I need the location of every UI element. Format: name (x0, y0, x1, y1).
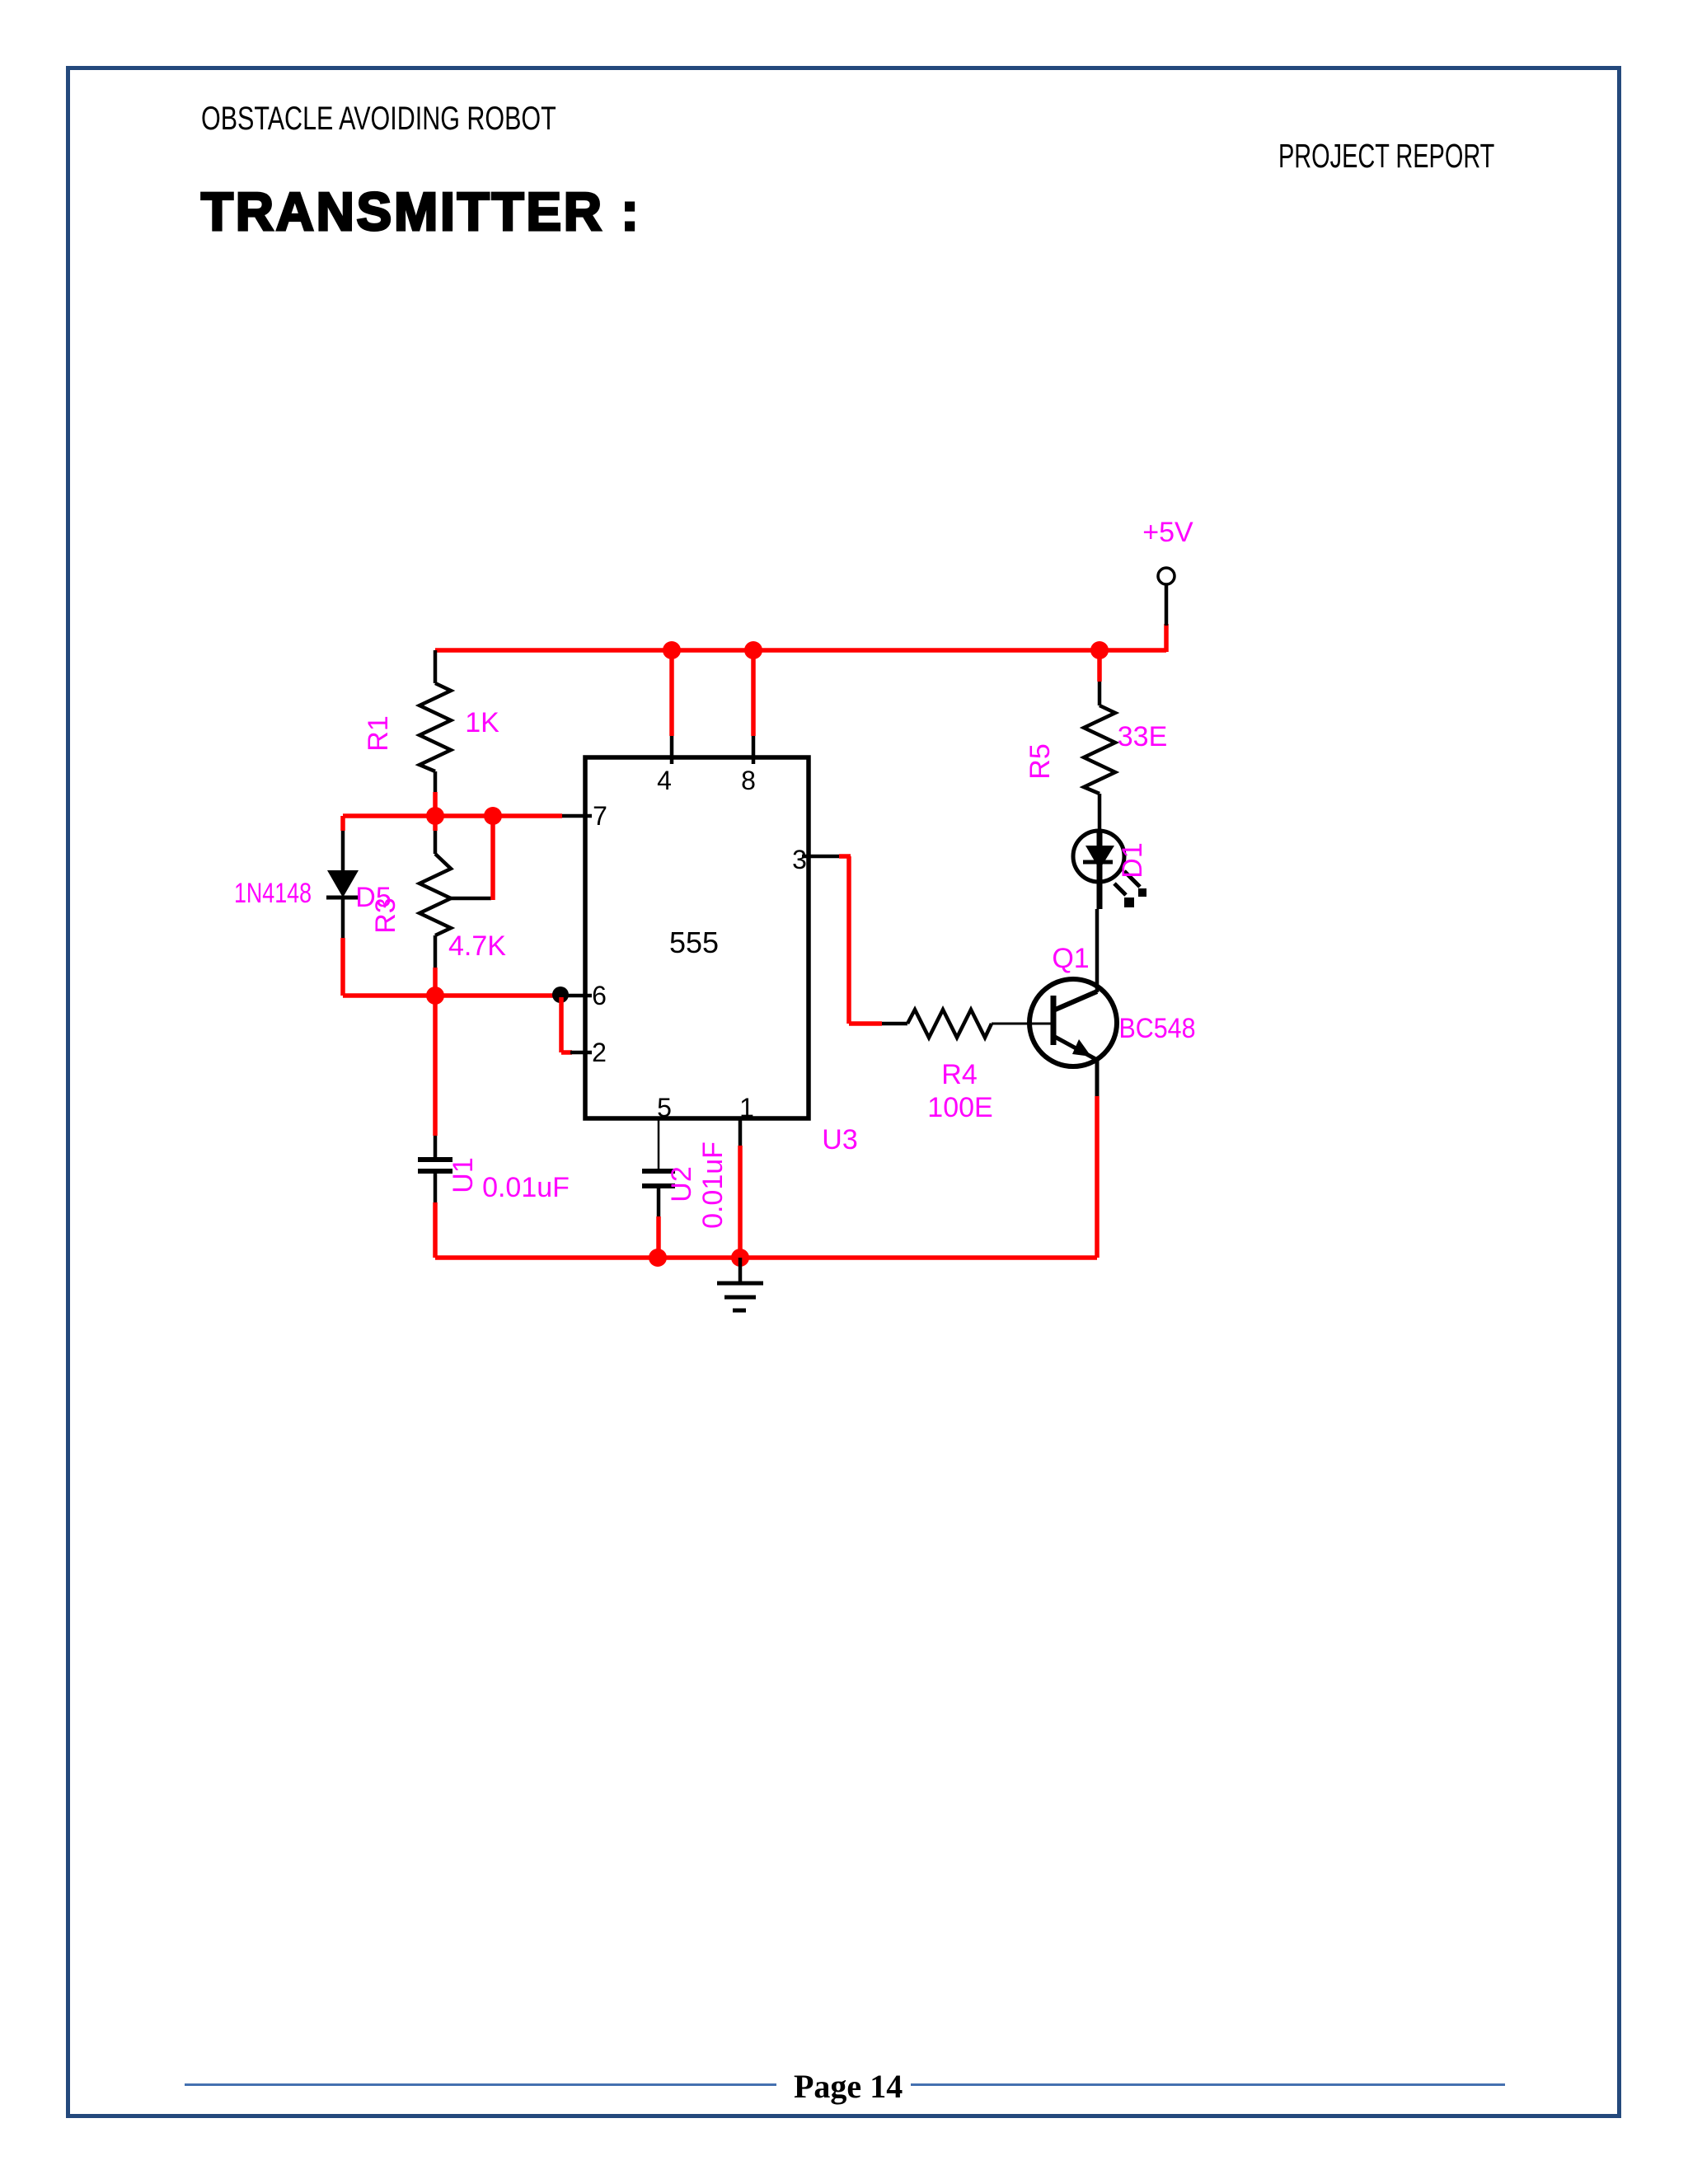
svg-text:100E: 100E (927, 1092, 992, 1123)
wire D5 cathode lead (341, 898, 345, 996)
wire pin 4 riser (669, 650, 674, 764)
wire pin6 node rail (343, 993, 557, 998)
footer: Page 14 (794, 2067, 903, 2106)
svg-text:R3: R3 (370, 898, 401, 933)
svg-text:0.01uF: 0.01uF (482, 1172, 570, 1203)
node junction B (wiper/pin7) (484, 807, 502, 825)
node junction pin4/VCC (663, 641, 681, 659)
node junction pin6 (552, 987, 569, 1003)
wire R3 wiper tap (449, 816, 493, 900)
svg-text:33E: 33E (1118, 721, 1168, 752)
wire R5 bottom lead (1098, 794, 1102, 832)
wire R3 top lead (433, 816, 438, 854)
svg-text:+5V: +5V (1142, 517, 1193, 548)
wire R1 bottom lead (434, 771, 438, 816)
node junction R5/VCC (1090, 641, 1109, 659)
svg-text:3: 3 (792, 845, 807, 874)
title: TRANSMITTER : (201, 180, 641, 242)
wire +5V terminal riser (1164, 584, 1169, 652)
svg-text:D1: D1 (1117, 842, 1148, 878)
svg-text:7: 7 (593, 801, 607, 831)
svg-text:R4: R4 (941, 1059, 977, 1090)
svg-text:555: 555 (669, 926, 719, 959)
svg-text:U3: U3 (822, 1124, 857, 1155)
resistor R1 (420, 683, 451, 771)
svg-text:5: 5 (657, 1093, 672, 1122)
capacitor U2 (642, 1171, 675, 1186)
wire R1 top lead (434, 650, 438, 683)
wire U2 bottom lead (657, 1186, 661, 1258)
ground (717, 1258, 763, 1310)
header right: PROJECT REPORT (1278, 137, 1494, 176)
wire R4 right lead (992, 1023, 1053, 1025)
wire D5 anode lead (340, 816, 345, 871)
wire R3 bottom lead (434, 935, 438, 996)
node junction C (D5/R3/U1) (426, 987, 444, 1005)
wire pin 7 stub (562, 814, 592, 818)
svg-text:6: 6 (592, 981, 607, 1010)
resistor R4 (907, 1010, 992, 1038)
wire ground bottom rail (435, 1255, 1097, 1260)
footer rule left (185, 2083, 776, 2086)
svg-text:R5: R5 (1025, 743, 1056, 779)
svg-text:Q1: Q1 (1052, 943, 1089, 974)
svg-text:U1: U1 (448, 1157, 479, 1193)
svg-text:1N4148: 1N4148 (234, 878, 312, 909)
wire Q1 emitter lead (1095, 1060, 1100, 1258)
resistor R3 (420, 854, 451, 935)
header left: OBSTACLE AVOIDING ROBOT (201, 101, 556, 138)
footer rule right (911, 2083, 1505, 2086)
svg-text:U2: U2 (666, 1166, 697, 1202)
svg-text:4.7K: 4.7K (448, 930, 506, 962)
svg-text:0.01uF: 0.01uF (697, 1141, 729, 1229)
node junction A (R1/pin7) (426, 807, 444, 825)
transistor Q1 (1029, 979, 1117, 1066)
svg-text:4: 4 (657, 766, 672, 795)
wire U1 bottom lead (434, 1171, 438, 1258)
wire pin 2 link (561, 997, 592, 1052)
wire R5 top lead (1097, 650, 1102, 705)
svg-text:R1: R1 (363, 715, 394, 751)
wire pin7 node rail (343, 813, 562, 818)
diode D5 (326, 870, 359, 898)
node +5V terminal (1158, 568, 1175, 584)
wire VCC top rail (435, 648, 1166, 653)
wire pin 8 riser (751, 650, 756, 764)
svg-text:BC548: BC548 (1119, 1013, 1196, 1044)
wire R4 left lead (882, 1022, 907, 1026)
wire U2 top lead (658, 1120, 660, 1171)
wire pin 1 lead (738, 1120, 743, 1258)
wire pin 6 stub (560, 994, 592, 998)
wire U1 top lead (433, 997, 438, 1160)
op-amp U3 555 IC body (585, 757, 809, 1118)
node junction pin8/VCC (744, 641, 762, 659)
node junction U2/rail (649, 1249, 667, 1267)
svg-text:1: 1 (739, 1093, 754, 1122)
resistor R5 (1084, 705, 1115, 794)
node junction pin1/rail (731, 1249, 749, 1267)
capacitor U1 (418, 1160, 452, 1171)
wire pin 3 output (802, 856, 882, 1024)
svg-text:8: 8 (741, 766, 756, 795)
LED D1 (1073, 831, 1146, 909)
svg-text:2: 2 (592, 1038, 607, 1067)
wire Q1 collector lead (1095, 909, 1100, 992)
svg-text:1K: 1K (465, 707, 499, 738)
